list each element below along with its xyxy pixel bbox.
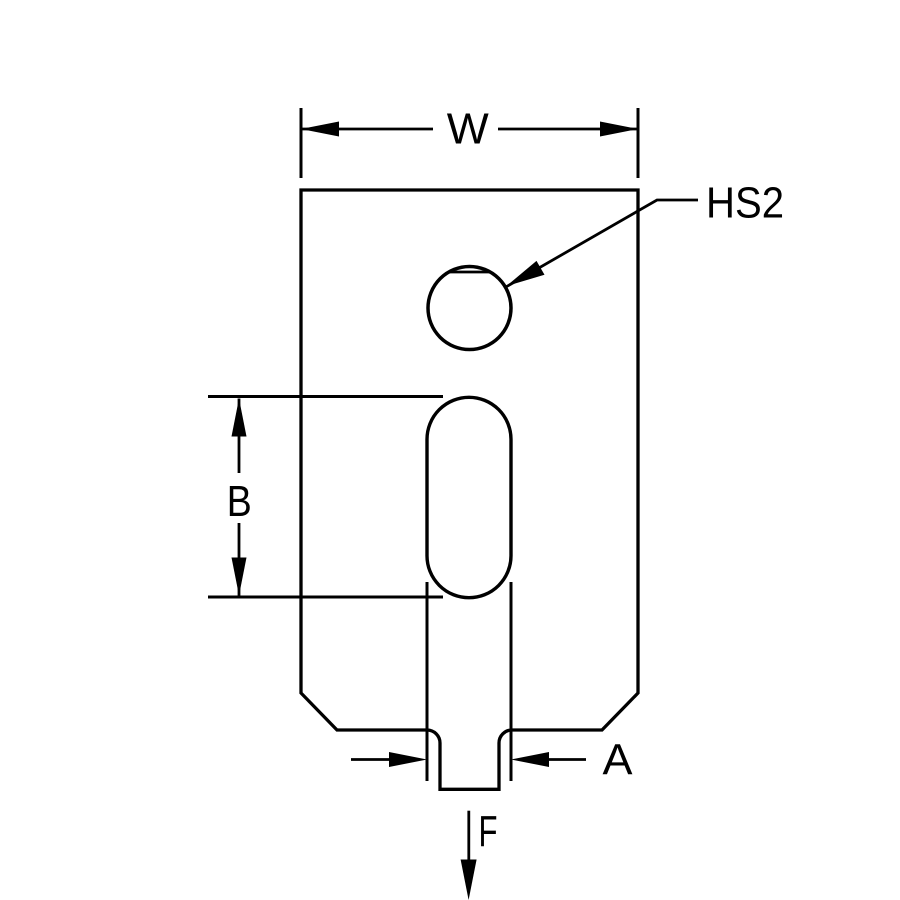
B extension line bottom: [208, 596, 443, 599]
F force arrow line: [467, 811, 470, 861]
W dimension line right segment: [498, 128, 638, 131]
A dimension line left: [351, 758, 400, 761]
slot side extension line left (A): [426, 582, 429, 781]
HS2 leader arrowhead: [506, 261, 544, 286]
bracket plate outline: [301, 190, 638, 789]
B arrowhead top: [232, 399, 247, 437]
svg-text:F: F: [479, 807, 498, 856]
F force arrowhead: [461, 860, 477, 900]
W dimension line left segment: [301, 128, 433, 131]
svg-text:B: B: [227, 477, 252, 526]
slot obround: [427, 397, 511, 597]
svg-text:HS2: HS2: [706, 179, 784, 228]
W arrowhead left: [301, 122, 339, 137]
slot side extension line right (A): [510, 582, 513, 781]
B arrowhead bottom: [232, 558, 247, 596]
svg-text:A: A: [603, 736, 634, 785]
hole HS2 flat chord: [449, 271, 490, 274]
hole HS2 circle: [428, 267, 511, 350]
HS2 leader line: [506, 200, 699, 287]
B dimension line top segment: [238, 399, 241, 474]
A arrowhead left: [389, 752, 427, 767]
B dimension line bottom segment: [238, 523, 241, 596]
B extension line top: [208, 395, 443, 398]
A dimension line right: [538, 758, 586, 761]
A arrowhead right: [511, 752, 549, 767]
W extension line right: [637, 108, 640, 178]
svg-text:W: W: [447, 105, 489, 154]
W extension line left: [300, 108, 303, 178]
W arrowhead right: [600, 122, 638, 137]
